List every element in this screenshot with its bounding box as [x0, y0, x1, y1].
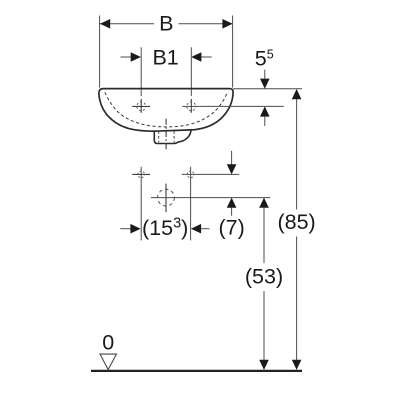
- dimension (85): line upper part: [296, 99, 298, 210]
- dimension (53): line upper part: [263, 208, 265, 263]
- dimension (53): lower arrowhead (down): [259, 360, 269, 370]
- dimension (85): upper arrowhead (up): [292, 89, 302, 99]
- datum level 0: triangle symbol: [100, 354, 116, 370]
- dimension (7): upper tail: [231, 151, 233, 165]
- dimension B1: right tail: [201, 56, 211, 58]
- faucet hole right: vertical centerline: [190, 99, 192, 113]
- dimension (15^3): right arrowhead: [191, 224, 201, 234]
- dimension (53): upper arrowhead (up): [259, 198, 269, 208]
- svg-text:(153): (153): [142, 215, 188, 239]
- dimension B: right arrowhead: [222, 19, 232, 29]
- dimension B: extension line right: [232, 16, 234, 88]
- svg-text:(7): (7): [218, 216, 244, 240]
- faucet hole left: dashed circle: [137, 102, 146, 111]
- fixing hole right: dashed circle: [187, 171, 194, 178]
- faucet hole left: vertical centerline: [140, 99, 142, 113]
- dimension (7): lower arrowhead (up): [227, 198, 237, 208]
- dimension (85): lower arrowhead (down): [292, 360, 302, 370]
- fixing hole left: dashed circle: [138, 171, 145, 178]
- svg-text:B1: B1: [152, 45, 178, 69]
- faucet hole right: horizontal centerline merged with 5.5 reference line: [182, 105, 283, 107]
- dimension B: extension line left: [99, 16, 101, 88]
- drain hole: vertical centerline: [165, 184, 167, 213]
- fixing hole right: extension line down to dim: [190, 167, 192, 241]
- dimension (7): upper arrowhead (down): [227, 164, 237, 174]
- svg-text:(85): (85): [277, 210, 315, 234]
- floor line: [91, 370, 302, 372]
- washbasin inner rim (hidden) dashed curve: [105, 92, 227, 127]
- siphon/trap box outline: [154, 130, 191, 144]
- fixing hole right: horizontal centerline merged with (7) upper reference: [182, 173, 240, 175]
- dimension B1: left tail: [121, 56, 132, 58]
- rim top reference line to the right: [233, 88, 302, 90]
- dimension (15^3): left tail: [120, 228, 131, 230]
- svg-text:(53): (53): [245, 265, 283, 289]
- dimension 5^5: upper tail: [264, 70, 266, 80]
- faucet hole left: horizontal centerline: [132, 105, 150, 107]
- trap hidden edge right (dashed): [173, 131, 175, 142]
- svg-text:0: 0: [102, 331, 114, 355]
- svg-text:B: B: [159, 11, 173, 35]
- trap centerline: [165, 119, 167, 150]
- dimension B1: left arrowhead: [131, 52, 141, 62]
- dimension 5^5: lower tail: [264, 116, 266, 126]
- drain hole: horizontal centerline merged with (53)/(7) reference line: [151, 197, 270, 199]
- dimension B1: right arrowhead: [191, 52, 201, 62]
- drain hole: dashed circle: [158, 189, 175, 206]
- dimension (85): line lower part: [296, 237, 298, 361]
- faucet hole right: dashed circle: [187, 102, 196, 111]
- dimension 5^5: upper arrowhead (down): [260, 79, 270, 89]
- washbasin outer outline: [99, 89, 233, 132]
- dimension B: left arrowhead: [100, 19, 110, 29]
- dimension (15^3): left arrowhead: [130, 224, 140, 234]
- dimension 5^5: lower arrowhead (up): [260, 106, 270, 116]
- fixing hole left: extension line down to dim: [140, 167, 142, 241]
- dimension B: dimension line: [100, 23, 154, 25]
- dimension (15^3): right tail: [201, 228, 209, 230]
- dimension B1: extension line right: [190, 47, 192, 96]
- trap hidden edge left (dashed): [158, 131, 160, 142]
- dimension (7): lower tail: [231, 208, 233, 216]
- dimension B1: extension line left: [140, 47, 142, 96]
- dimension (53): line lower part: [263, 291, 265, 360]
- fixing hole left: horizontal centerline: [132, 173, 150, 175]
